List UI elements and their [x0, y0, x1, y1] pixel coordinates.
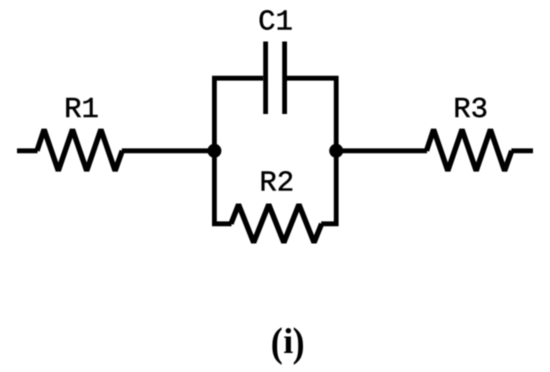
svg-text:R3: R3 [453, 93, 488, 126]
svg-text:(: ( [271, 320, 283, 366]
svg-text:): ) [293, 320, 305, 366]
svg-text:C1: C1 [258, 6, 293, 39]
svg-text:R2: R2 [259, 167, 294, 200]
svg-text:R1: R1 [64, 93, 99, 126]
